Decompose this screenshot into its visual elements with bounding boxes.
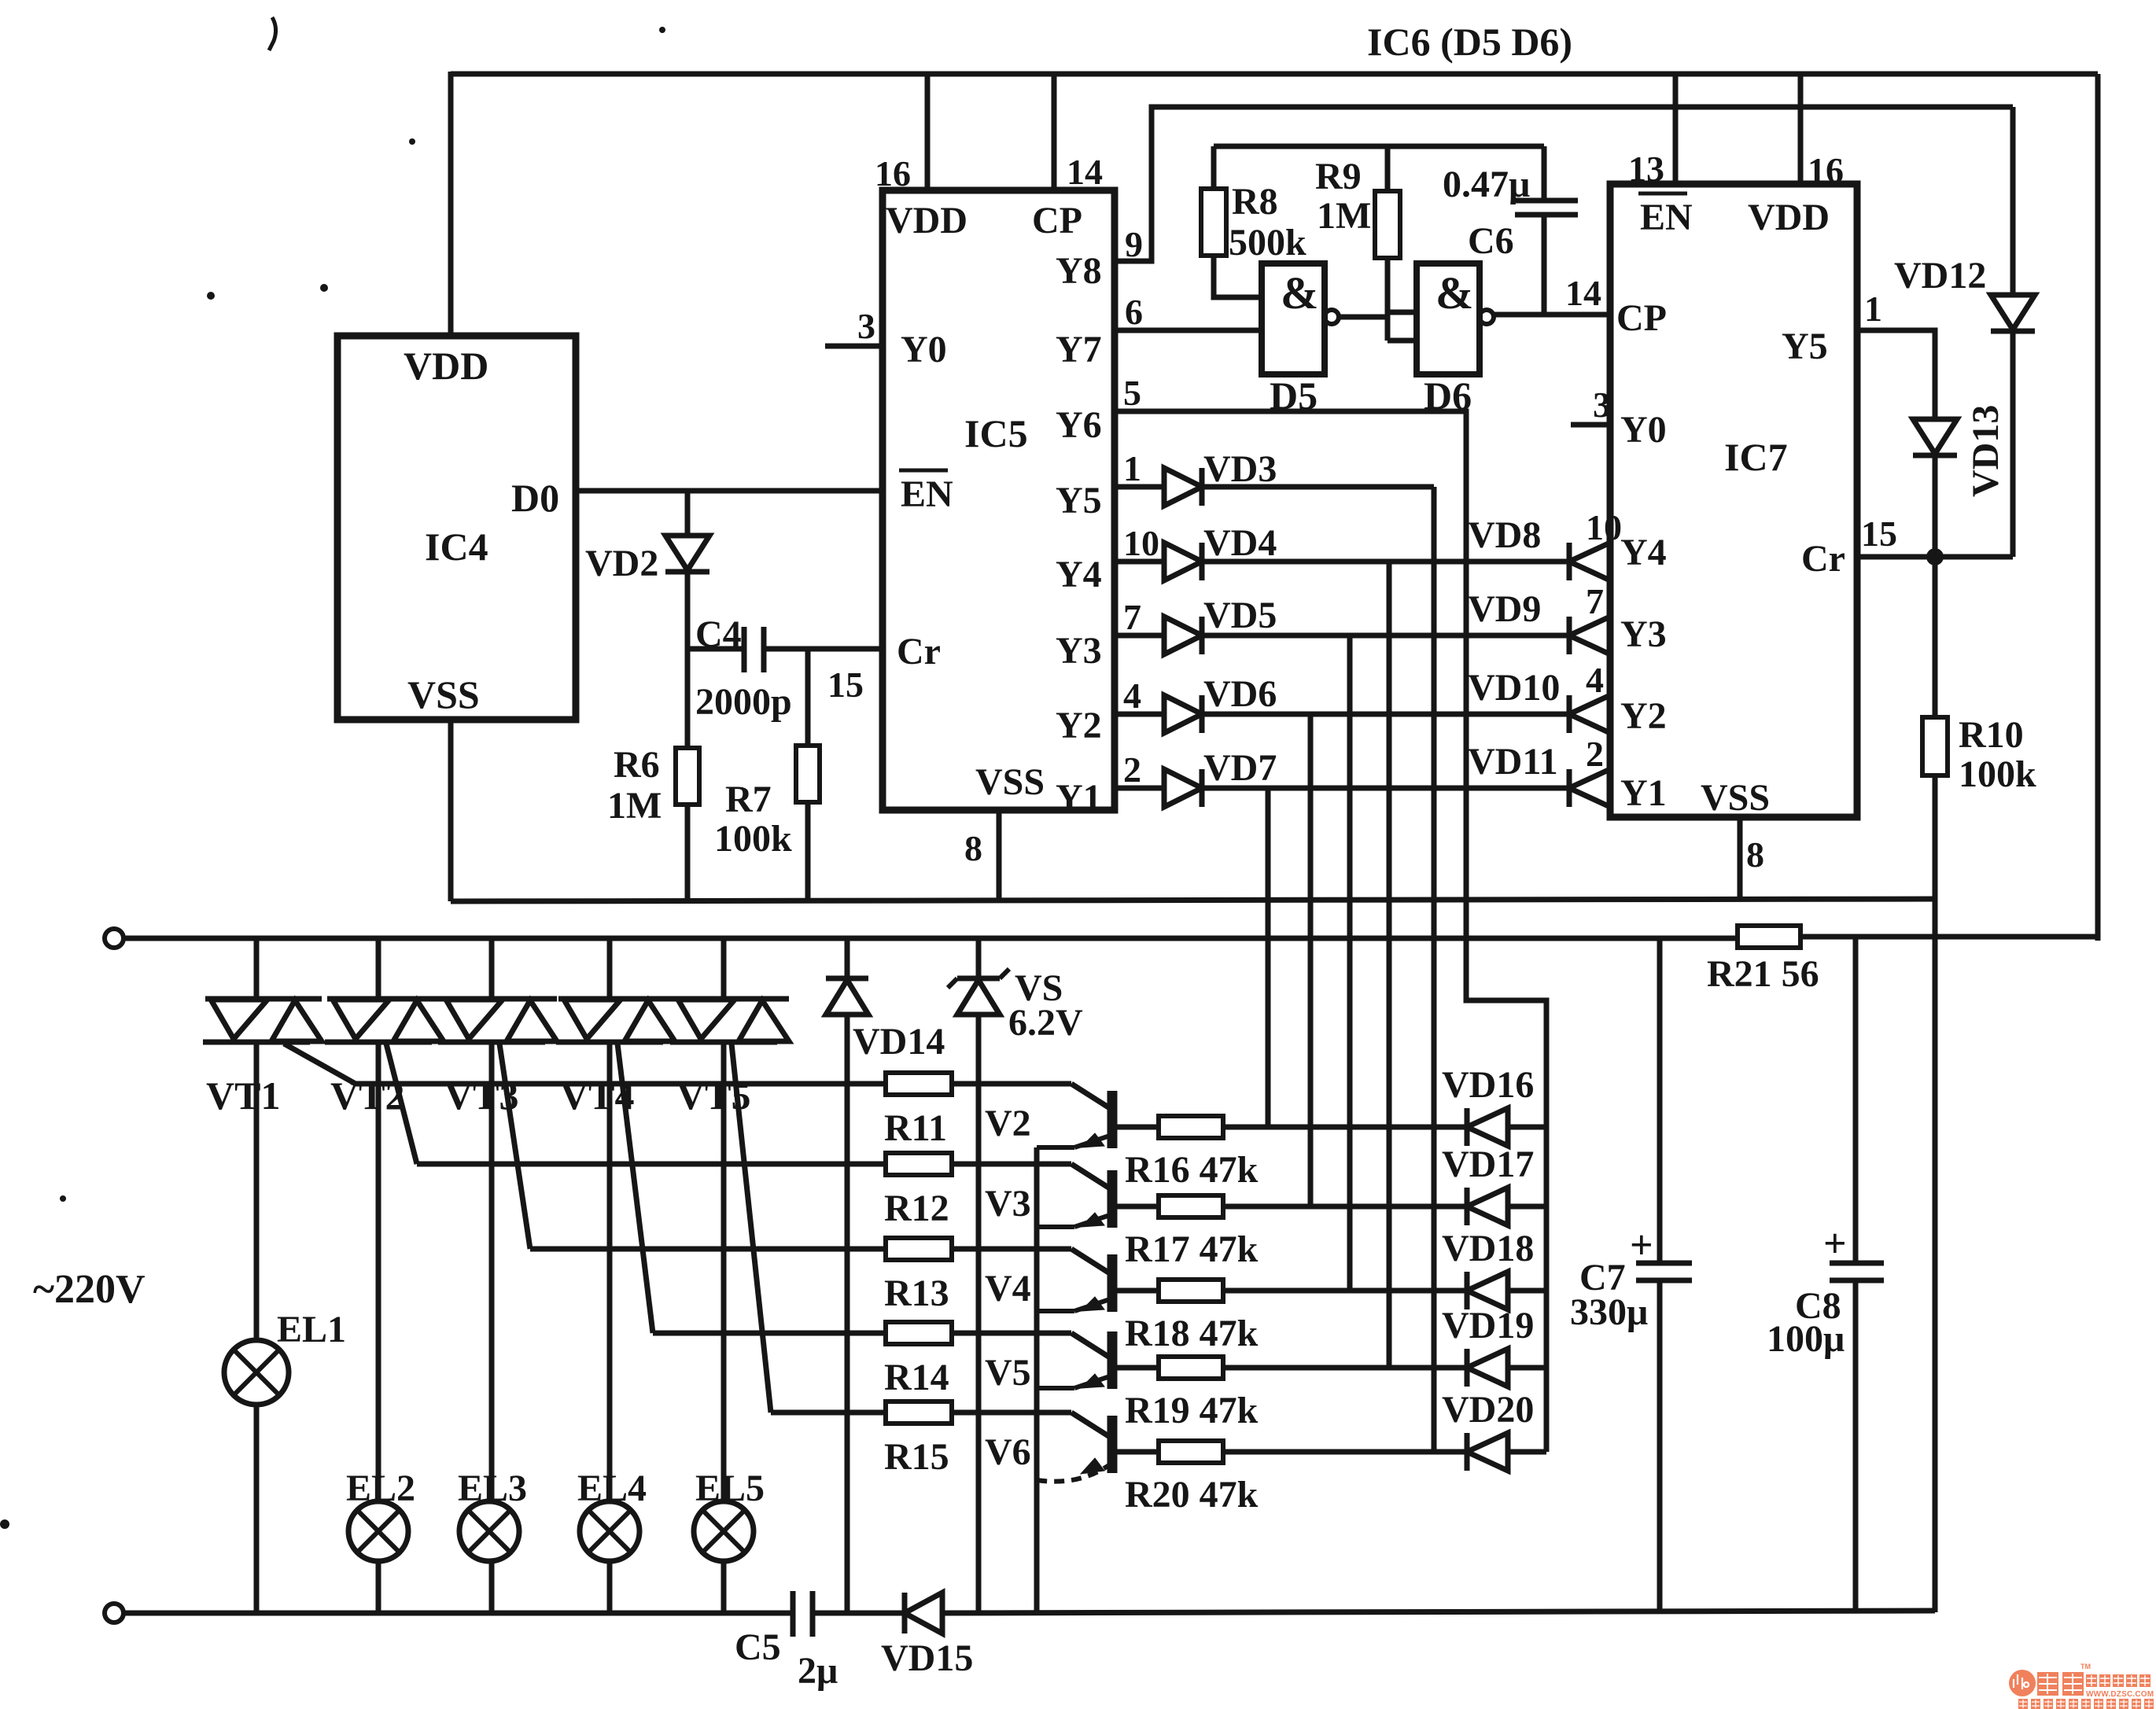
wire IC7 pin16 riser <box>1798 74 1804 186</box>
IC5 pin label 16 <box>875 153 911 193</box>
C6 label <box>1468 220 1514 262</box>
VD17 label <box>1442 1144 1534 1185</box>
VD9 label <box>1468 588 1541 630</box>
wire VD8 to IC7 <box>1610 559 1612 565</box>
wire VD13 to Cr node <box>1933 455 1938 560</box>
VD2 label <box>585 543 658 584</box>
IC5 pin label 10 for VD4 row <box>1123 523 1159 563</box>
svg-text:R15: R15 <box>884 1436 949 1478</box>
source label ~220V <box>33 1267 146 1312</box>
svg-text:VD17: VD17 <box>1442 1144 1534 1185</box>
C6 value 0.47u <box>1443 164 1530 205</box>
wire R7 leads <box>805 649 811 901</box>
IC7 label Y2 <box>1620 695 1667 737</box>
diode VD10 <box>1569 695 1610 733</box>
EL4 label <box>577 1468 647 1509</box>
IC5 Y0 stub (pin 3) <box>825 306 883 346</box>
diode VD19 <box>1467 1349 1508 1387</box>
VD10 label <box>1468 667 1560 709</box>
svg-text:CP: CP <box>1032 200 1082 241</box>
wire Y3 row <box>1202 633 1569 639</box>
wire VT5 anode riser <box>721 938 727 999</box>
svg-text:VD12: VD12 <box>1894 255 1986 296</box>
IC5 label VSS <box>975 761 1045 803</box>
R17 value label <box>1125 1228 1259 1270</box>
resistor R17 <box>1159 1195 1223 1217</box>
IC4 name <box>425 525 488 569</box>
wire IC4 D0 to IC5 EN <box>576 488 883 494</box>
wire VT1 gate lead <box>284 1044 356 1084</box>
svg-text:Y6: Y6 <box>1056 404 1102 446</box>
wire VT3 anode riser <box>489 938 495 999</box>
IC7 pin label 14 <box>1565 273 1601 313</box>
diode VD8 <box>1569 543 1610 580</box>
VT3 label <box>444 1074 518 1118</box>
svg-text:&: & <box>1281 267 1318 319</box>
svg-text:R9: R9 <box>1315 156 1362 197</box>
capacitor C8 <box>1830 1263 1884 1280</box>
svg-text:EL1: EL1 <box>277 1309 346 1350</box>
svg-text:Y3: Y3 <box>1056 630 1102 672</box>
V3 label <box>985 1183 1031 1225</box>
transistor V6 emitter (dashed) <box>1037 1458 1112 1482</box>
wire R11 row right <box>952 1081 1071 1087</box>
svg-text:IC7: IC7 <box>1724 435 1788 479</box>
svg-text:VSS: VSS <box>975 761 1045 803</box>
wire IC7 Cr (pin 15) row <box>1857 554 2013 560</box>
wire D5 output to D6 <box>1339 315 1388 320</box>
diode VD5 <box>1164 617 1202 654</box>
wire IC5 VSS drop (pin 8) <box>997 810 1002 901</box>
wire IC5 pin14 riser <box>1052 74 1057 193</box>
wire VD12 to Cr row <box>2010 331 2016 557</box>
wire R13 row right <box>952 1247 1071 1252</box>
VD12 label <box>1894 255 1986 296</box>
IC7 pin label 1 <box>1864 289 1882 329</box>
svg-text:VD5: VD5 <box>1203 595 1277 636</box>
IC7 label Y4 <box>1620 532 1667 573</box>
IC5 pin label 1 for VD3 row <box>1123 448 1141 488</box>
svg-text:3: 3 <box>857 306 875 346</box>
wire R16 row right <box>1223 1125 1467 1130</box>
svg-text:VD19: VD19 <box>1442 1305 1534 1346</box>
svg-text:C5: C5 <box>735 1626 781 1668</box>
wire C4 row right to IC5 Cr <box>764 646 883 652</box>
svg-text:7: 7 <box>1123 597 1141 637</box>
wire VT2 anode riser <box>376 938 381 999</box>
EL3 label <box>458 1468 527 1509</box>
C4 label <box>695 613 742 655</box>
svg-text:EL2: EL2 <box>346 1468 415 1509</box>
svg-text:16: 16 <box>1808 150 1844 190</box>
wire VS top lead <box>976 938 982 978</box>
svg-text:VD20: VD20 <box>1442 1389 1534 1431</box>
wire VSS bus <box>451 899 1935 901</box>
IC5 name <box>964 411 1028 455</box>
IC7 box <box>1610 184 1857 817</box>
IC5 label Y6 <box>1056 404 1102 446</box>
IC5 Cr pin15 label <box>827 665 864 705</box>
lamp EL1 <box>224 1340 289 1405</box>
wire R10 bottom run to bottom rail <box>1933 775 1938 1612</box>
svg-text:VD18: VD18 <box>1442 1228 1534 1269</box>
IC5 pin8 label <box>964 828 982 868</box>
svg-text:15: 15 <box>1861 514 1897 554</box>
wire VD14 top lead <box>845 938 850 978</box>
wire tap Y3 row down to R18 row <box>1347 635 1353 1291</box>
IC5 pin9 label <box>1125 224 1143 264</box>
svg-text:7: 7 <box>1586 581 1604 621</box>
R19 value label <box>1125 1390 1259 1431</box>
svg-text:1: 1 <box>1864 289 1882 329</box>
wire EL3 bottom lead <box>489 1561 495 1612</box>
diode VD7 <box>1164 769 1202 807</box>
VD6 label <box>1203 673 1277 715</box>
IC4 label VSS <box>407 672 480 716</box>
transistor V5 collector lead <box>1071 1333 1112 1359</box>
svg-text:VD8: VD8 <box>1468 514 1541 556</box>
IC4 box <box>337 336 576 720</box>
wire VT2 gate lead <box>386 1044 417 1164</box>
svg-text:R20 47k: R20 47k <box>1125 1474 1259 1516</box>
svg-text:14: 14 <box>1565 273 1601 313</box>
lamp EL3 <box>459 1501 519 1561</box>
svg-text:2: 2 <box>1123 750 1141 790</box>
diode VD9 <box>1569 617 1610 654</box>
IC7 pin label 10 for VD8 row <box>1586 507 1622 547</box>
R13 label <box>884 1273 949 1314</box>
diode VD12 <box>1991 295 2035 331</box>
IC7 label EN with overline <box>1638 193 1693 238</box>
resistor R10 <box>1922 717 1948 775</box>
transistor V6 collector lead <box>1071 1413 1112 1438</box>
wire VT3 gate lead <box>499 1044 530 1249</box>
transistor V5 emitter <box>1037 1374 1112 1388</box>
svg-text:VDD: VDD <box>1748 197 1830 238</box>
wire Y2 row <box>1202 712 1569 717</box>
wire R15 row left <box>771 1410 886 1416</box>
wire VT4 gate lead <box>617 1044 653 1333</box>
wire VD9 to IC7 <box>1610 633 1612 639</box>
wire IC5 output stub to VD7 <box>1115 786 1164 791</box>
R16 value label <box>1125 1149 1259 1191</box>
wire VD2 top lead <box>685 491 691 536</box>
wire VD18 anode to Y6 column <box>1508 1288 1546 1294</box>
IC7 label VDD <box>1748 197 1830 238</box>
svg-text:R12: R12 <box>884 1188 949 1229</box>
resistor R9 <box>1375 191 1400 258</box>
IC7 label Y0 <box>1620 409 1667 451</box>
wire tap Y5 row down to R20 row <box>1432 487 1437 1452</box>
resistor R21 <box>1738 926 1800 948</box>
VT4 label <box>560 1074 634 1118</box>
IC7 pin label 4 for VD10 row <box>1586 660 1604 700</box>
svg-text:1M: 1M <box>1317 195 1371 237</box>
lamp EL5 <box>694 1501 754 1561</box>
triac VT1 <box>203 999 322 1042</box>
wire Y8 (IC5 pin 9) riser and top run <box>1115 107 2013 261</box>
wire EL4 top lead <box>607 1042 613 1501</box>
triac VT2 <box>325 999 444 1042</box>
C8 label <box>1767 1285 1845 1360</box>
wire EL2 top lead <box>376 1042 381 1501</box>
wire R6 leads <box>685 649 691 901</box>
VD14 label <box>853 1021 945 1063</box>
IC5 pin label 14 <box>1067 152 1103 192</box>
VD19 label <box>1442 1305 1534 1346</box>
VS label <box>1008 967 1083 1044</box>
svg-text:VT4: VT4 <box>560 1074 634 1118</box>
IC5 label Cr <box>897 631 941 672</box>
wire Y5 row to down-tap <box>1202 484 1434 490</box>
wire VD2 to C4 row <box>685 572 691 649</box>
wire R14 row right <box>952 1331 1071 1336</box>
wire C6 bottom lead <box>1542 215 1547 315</box>
svg-text:R13: R13 <box>884 1273 949 1314</box>
IC7 pin15 label <box>1861 514 1897 554</box>
transistor V3 base bar <box>1107 1170 1118 1228</box>
svg-text:4: 4 <box>1123 676 1141 716</box>
wire D6 input stubs <box>1388 312 1417 341</box>
VD4 label <box>1203 522 1277 564</box>
wire EL3 top lead <box>489 1042 495 1501</box>
wire Y4 row <box>1202 559 1569 565</box>
wire oscillator top loop <box>1214 144 1544 149</box>
svg-text:14: 14 <box>1067 152 1103 192</box>
svg-text:R19 47k: R19 47k <box>1125 1390 1259 1431</box>
wire R19 row right <box>1223 1365 1467 1371</box>
wire R13 row left <box>530 1247 886 1252</box>
wire IC5 output stub to VD4 <box>1115 559 1164 565</box>
resistor R16 <box>1159 1116 1223 1138</box>
D6 name <box>1424 374 1472 418</box>
VD5 label <box>1203 595 1277 636</box>
svg-text:VD4: VD4 <box>1203 522 1277 564</box>
svg-text:VD6: VD6 <box>1203 673 1277 715</box>
V5 label <box>985 1352 1031 1394</box>
svg-text:Y4: Y4 <box>1620 532 1667 573</box>
IC7 pin label 7 for VD9 row <box>1586 581 1604 621</box>
wire R20 row right <box>1223 1449 1467 1455</box>
svg-text:TM: TM <box>2080 1663 2091 1670</box>
wire VT4 anode riser <box>607 938 613 999</box>
diode VD20 <box>1467 1433 1508 1471</box>
IC7 pin label 13 <box>1628 149 1664 189</box>
EL1 label <box>277 1309 346 1350</box>
VD11 label <box>1468 741 1558 783</box>
wire VT1 anode riser <box>254 938 260 999</box>
svg-text:VD15: VD15 <box>881 1637 973 1679</box>
wire R8 top lead <box>1211 146 1217 190</box>
wire 220V live bus left of R21 <box>123 936 1738 941</box>
wire VD11 to IC7 <box>1610 786 1612 791</box>
wire IC5 output stub to VD6 <box>1115 712 1164 717</box>
wire D6 output to IC7 CP (pin 14) <box>1494 312 1610 318</box>
svg-text:IC5: IC5 <box>964 411 1028 455</box>
R6 label <box>607 744 662 827</box>
svg-text:EL5: EL5 <box>695 1468 765 1509</box>
svg-text:VD13: VD13 <box>1965 405 2007 497</box>
wire R19 row left <box>1112 1365 1159 1371</box>
svg-text:2: 2 <box>1586 734 1604 774</box>
wire far-right vertical (top rail to 220V bus) <box>2095 74 2101 941</box>
VT1 label <box>206 1074 280 1118</box>
svg-text:330μ: 330μ <box>1570 1291 1648 1333</box>
svg-text:6.2V: 6.2V <box>1008 1002 1083 1044</box>
transistor V3 collector lead <box>1071 1164 1112 1190</box>
C7 plus <box>1630 1223 1653 1268</box>
wire VT5 gate lead <box>732 1044 771 1413</box>
transistor V3 emitter <box>1037 1213 1112 1227</box>
wire R16 row left <box>1112 1125 1159 1130</box>
transistor V4 base bar <box>1107 1254 1118 1312</box>
transistor V2 collector lead <box>1071 1084 1112 1110</box>
svg-text:Y1: Y1 <box>1620 772 1667 814</box>
svg-text:8: 8 <box>1746 834 1764 875</box>
wire 220V live bus right of R21 <box>1800 934 2098 940</box>
svg-text:6: 6 <box>1125 292 1143 332</box>
V2 label <box>985 1103 1031 1144</box>
R7 label <box>714 779 792 860</box>
svg-text:1M: 1M <box>607 785 662 827</box>
IC7 pin label 16 <box>1808 150 1844 190</box>
diode VD3 <box>1164 468 1202 506</box>
svg-text:VD14: VD14 <box>853 1021 945 1063</box>
svg-text:Y3: Y3 <box>1620 613 1667 655</box>
IC5 pin label 2 for VD7 row <box>1123 750 1141 790</box>
svg-text:~220V: ~220V <box>33 1267 146 1312</box>
wire C8 bottom lead <box>1853 1280 1859 1611</box>
svg-text:CP: CP <box>1616 297 1667 339</box>
svg-text:Y5: Y5 <box>1782 326 1828 367</box>
svg-text:2μ: 2μ <box>798 1650 838 1692</box>
zener VS <box>948 969 1009 1015</box>
C5 label <box>735 1626 838 1692</box>
svg-text:Y0: Y0 <box>1620 409 1667 451</box>
wire R15 row right <box>952 1410 1071 1416</box>
VD20 label <box>1442 1389 1534 1431</box>
wire IC7 Y5 (pin 1) row <box>1857 330 1935 419</box>
wire R12 row right <box>952 1162 1071 1167</box>
svg-text:WWW.DZSC.COM: WWW.DZSC.COM <box>2086 1690 2154 1699</box>
IC7 label Cr <box>1801 538 1845 580</box>
wire top supply rail <box>451 72 2098 77</box>
IC5 label CP <box>1032 200 1082 241</box>
resistor R13 <box>886 1238 952 1260</box>
svg-text:VT2: VT2 <box>330 1074 404 1118</box>
IC5 pin label 7 for VD5 row <box>1123 597 1141 637</box>
NAND gate D6 <box>1417 263 1494 374</box>
wire Y1 row <box>1202 786 1569 791</box>
svg-text:VDD: VDD <box>886 200 967 241</box>
diode VD15 <box>905 1593 942 1633</box>
transistor V2 emitter <box>1037 1133 1112 1147</box>
VD18 label <box>1442 1228 1534 1269</box>
svg-text:R16 47k: R16 47k <box>1125 1149 1259 1191</box>
transistor V2 base bar <box>1107 1091 1118 1148</box>
wire IC5 output stub to VD3 <box>1115 484 1164 490</box>
IC5 label Y5 <box>1056 480 1102 521</box>
resistor R19 <box>1159 1357 1223 1379</box>
IC5 label VDD <box>886 200 967 241</box>
svg-text:IC4: IC4 <box>425 525 488 569</box>
svg-text:Cr: Cr <box>1801 538 1845 580</box>
R8 label <box>1229 181 1306 263</box>
IC5 label Y2 <box>1056 705 1102 746</box>
wire EL2 bottom lead <box>376 1561 381 1612</box>
wire VS bottom run <box>976 1015 982 1612</box>
VD16 label <box>1442 1064 1534 1106</box>
C4 value <box>695 681 792 723</box>
svg-text:VD7: VD7 <box>1203 747 1277 789</box>
R10 label <box>1959 714 2036 795</box>
wire bottom rail left <box>123 1611 793 1616</box>
wire IC4 VSS drop <box>448 720 454 901</box>
R14 label <box>884 1357 949 1398</box>
svg-text:500k: 500k <box>1229 222 1306 263</box>
wire VD19 anode to Y6 column <box>1508 1365 1546 1371</box>
svg-text:Y5: Y5 <box>1056 480 1102 521</box>
diode VD2 <box>665 536 709 572</box>
svg-text:V6: V6 <box>985 1431 1031 1473</box>
svg-text:VT5: VT5 <box>676 1074 750 1118</box>
svg-text:3: 3 <box>1593 385 1611 425</box>
resistor R6 <box>676 748 699 805</box>
resistor R12 <box>886 1153 952 1175</box>
lamp EL2 <box>348 1501 408 1561</box>
svg-text:VDD: VDD <box>404 344 488 388</box>
svg-text:VD9: VD9 <box>1468 588 1541 630</box>
wire IC4 VDD riser <box>448 72 454 338</box>
svg-text:VT1: VT1 <box>206 1074 280 1118</box>
wire R9 bottom / D6 input bar <box>1385 258 1391 341</box>
svg-text:R18 47k: R18 47k <box>1125 1313 1259 1354</box>
IC5 label Y8 <box>1056 250 1102 292</box>
svg-text:V4: V4 <box>985 1268 1031 1309</box>
wire R10 top lead <box>1933 557 1938 717</box>
svg-text:10: 10 <box>1586 507 1622 547</box>
R20 value label <box>1125 1474 1259 1516</box>
wire Y7 row (IC5 pin 6 to D5) <box>1115 292 1262 332</box>
wire R17 row left <box>1112 1204 1159 1210</box>
svg-text:V3: V3 <box>985 1183 1031 1225</box>
IC7 label Y3 <box>1620 613 1667 655</box>
svg-text:EN: EN <box>901 473 953 515</box>
wire EL5 bottom lead <box>721 1561 727 1612</box>
svg-text:VSS: VSS <box>407 672 480 716</box>
VD7 label <box>1203 747 1277 789</box>
svg-text:VD16: VD16 <box>1442 1064 1534 1106</box>
svg-text:&: & <box>1435 267 1473 319</box>
wire EL4 bottom lead <box>607 1561 613 1612</box>
capacitor C7 <box>1636 1263 1692 1280</box>
triac VT5 <box>670 999 789 1042</box>
EL5 label <box>695 1468 765 1509</box>
svg-text:D0: D0 <box>511 476 559 520</box>
wire R8 bottom to D5 input <box>1214 256 1262 297</box>
svg-text:9: 9 <box>1125 224 1143 264</box>
IC7 pin8 label <box>1746 834 1764 875</box>
wire EL5 top lead <box>721 1042 727 1501</box>
junction Cr/VD13/R10 node <box>1926 548 1944 565</box>
svg-text:R21 56: R21 56 <box>1707 953 1819 995</box>
resistor R8 <box>1201 189 1226 256</box>
svg-text:R14: R14 <box>884 1357 949 1398</box>
wire R11 row left <box>356 1081 886 1087</box>
wire R9 top lead <box>1385 146 1391 193</box>
C7 label <box>1570 1257 1648 1333</box>
diode VD16 <box>1467 1108 1508 1146</box>
